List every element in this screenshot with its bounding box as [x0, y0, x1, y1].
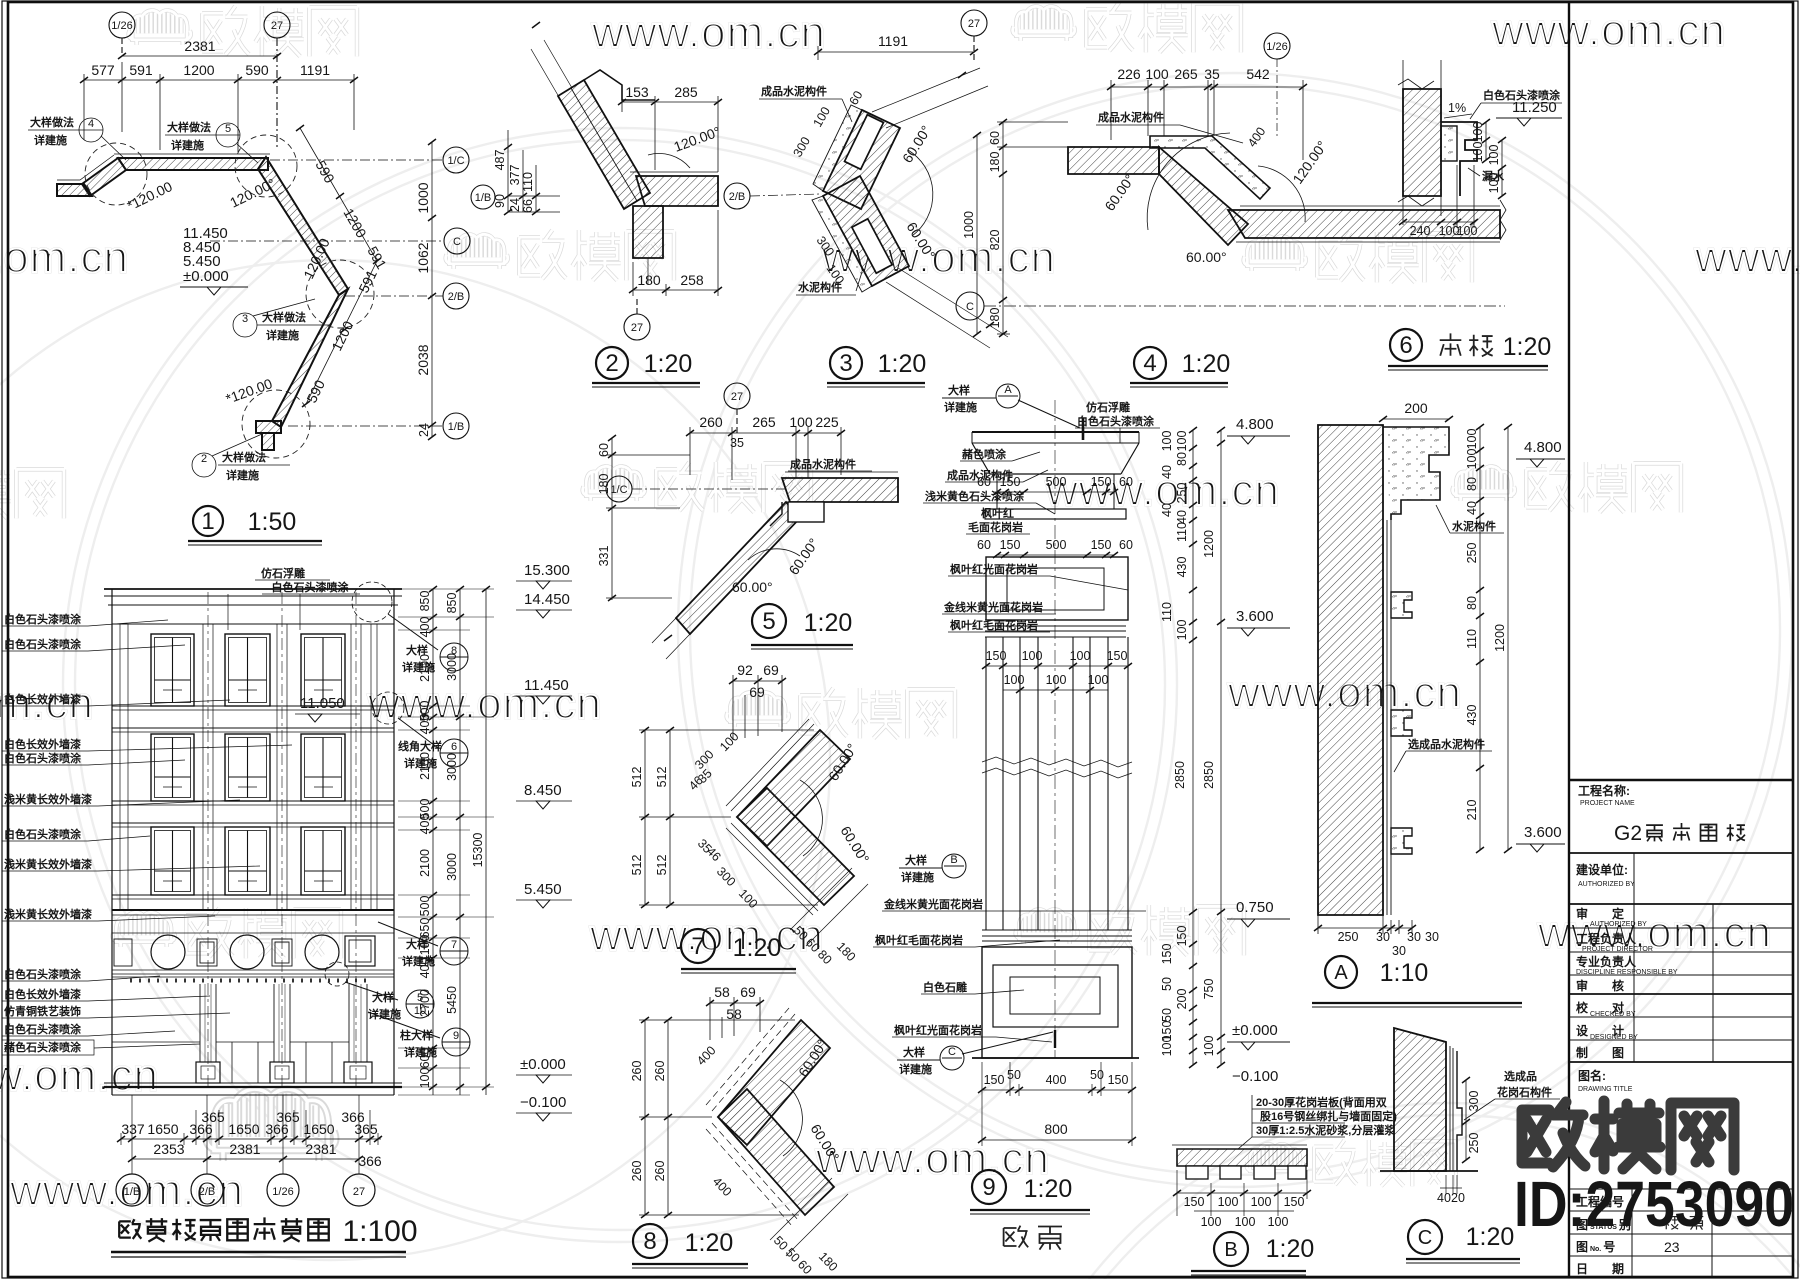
top dims: [733, 675, 782, 740]
svg-text:11.450: 11.450: [524, 677, 569, 694]
svg-text:60.00°: 60.00°: [1186, 249, 1227, 265]
top-right horizontal band: [782, 478, 898, 502]
svg-text:B: B: [1224, 1239, 1237, 1261]
svg-text:100: 100: [1022, 649, 1043, 663]
svg-text:1200: 1200: [1493, 624, 1507, 652]
wall arm diagonal: [558, 80, 650, 209]
svg-text:3000: 3000: [445, 753, 459, 781]
svg-text:40: 40: [1437, 1191, 1451, 1205]
svg-text:2850: 2850: [1202, 761, 1216, 789]
svg-text:5: 5: [762, 608, 775, 635]
pedestal: [982, 947, 1132, 1058]
svg-text:白色石头漆喷涂: 白色石头漆喷涂: [272, 580, 350, 594]
left chains: [639, 730, 818, 905]
label B: [1214, 1232, 1248, 1266]
svg-text:www.om.cn: www.om.cn: [591, 8, 826, 57]
dim 153 285: [622, 96, 718, 172]
svg-text:www.om.cn: www.om.cn: [1491, 6, 1726, 55]
svg-text:600: 600: [418, 1048, 432, 1069]
svg-text:仿青铜铁艺装饰: 仿青铜铁艺装饰: [4, 1004, 81, 1018]
svg-text:265: 265: [1174, 66, 1198, 82]
chevron bands: [718, 1020, 830, 1145]
grid circles: [116, 1174, 375, 1206]
svg-text:C: C: [948, 1046, 956, 1058]
label circle 1 1:50: [193, 506, 223, 536]
svg-text:180: 180: [597, 474, 611, 495]
coping batten: [1150, 136, 1270, 199]
svg-text:512: 512: [630, 855, 644, 876]
bottom diagonal dims: [770, 1178, 848, 1256]
wall left leg: [82, 158, 126, 196]
top dims 226 100 265 35 542: [1111, 80, 1303, 160]
svg-text:150: 150: [1107, 649, 1128, 663]
svg-text:1/C: 1/C: [447, 155, 464, 167]
svg-text:800: 800: [1044, 1121, 1068, 1137]
batten rects: [845, 115, 884, 170]
grid circle 27: [264, 12, 290, 150]
svg-text:柱大样: 柱大样: [400, 1028, 433, 1042]
svg-text:50: 50: [1160, 977, 1174, 991]
dims: [1177, 1170, 1307, 1216]
label 4: [1134, 347, 1166, 379]
svg-text:225: 225: [815, 414, 839, 430]
svg-text:60: 60: [988, 131, 1002, 145]
svg-text:白色石头漆喷涂: 白色石头漆喷涂: [1077, 414, 1155, 428]
svg-text:±0.000: ±0.000: [1232, 1022, 1278, 1039]
bottom dims 180 258: [633, 210, 718, 296]
svg-text:366: 366: [265, 1121, 289, 1137]
svg-text:金线米黄光面花岗岩: 金线米黄光面花岗岩: [943, 600, 1043, 614]
svg-text:69: 69: [740, 984, 756, 1000]
svg-text:100: 100: [1202, 1036, 1216, 1057]
svg-text:CHECKED BY: CHECKED BY: [1590, 1011, 1636, 1018]
svg-text:50: 50: [1160, 1008, 1174, 1022]
grid 27: [724, 383, 750, 433]
svg-text:100: 100: [418, 1068, 432, 1089]
svg-text:50: 50: [1007, 1068, 1021, 1082]
svg-text:512: 512: [630, 767, 644, 788]
svg-text:浅米黄长效外墙漆: 浅米黄长效外墙漆: [4, 907, 92, 921]
svg-text:1/26: 1/26: [272, 1186, 293, 1198]
wall top band: [57, 157, 348, 450]
svg-text:100: 100: [1004, 673, 1025, 687]
svg-text:www.om.cn: www.om.cn: [815, 1134, 1050, 1183]
svg-text:100: 100: [1070, 649, 1091, 663]
left labels: [2, 612, 292, 1055]
outer thin layers: [726, 719, 818, 915]
axis extension: [531, 40, 648, 285]
svg-text:2100: 2100: [418, 654, 432, 682]
svg-text:AUTHORIZED BY: AUTHORIZED BY: [1578, 881, 1635, 888]
svg-text:80: 80: [1175, 452, 1189, 466]
label 3: [830, 347, 862, 379]
svg-text:35: 35: [730, 436, 744, 450]
svg-text:1:20: 1:20: [1266, 1235, 1315, 1263]
svg-text:15300: 15300: [471, 833, 485, 868]
svg-text:50: 50: [1090, 1068, 1104, 1082]
svg-text:150: 150: [1175, 926, 1189, 947]
svg-text:成品水泥构件: 成品水泥构件: [947, 468, 1013, 482]
angle: [780, 1080, 802, 1156]
svg-text:1/26: 1/26: [1266, 41, 1287, 53]
svg-text:3.600: 3.600: [1236, 608, 1274, 625]
svg-text:100: 100: [1471, 122, 1485, 143]
svg-text:2/B: 2/B: [729, 191, 746, 203]
svg-text:3.600: 3.600: [1524, 824, 1562, 841]
svg-text:60.00°: 60.00°: [732, 579, 773, 595]
svg-text:4.800: 4.800: [1524, 439, 1562, 456]
svg-text:1:20: 1:20: [685, 1229, 734, 1257]
svg-text:2381: 2381: [229, 1141, 260, 1157]
svg-text:DESIGNED BY: DESIGNED BY: [1590, 1034, 1638, 1041]
svg-text:9: 9: [982, 1174, 995, 1201]
svg-text:1200: 1200: [1202, 530, 1216, 558]
svg-text:成品水泥构件: 成品水泥构件: [790, 457, 856, 471]
svg-text:详建施: 详建施: [899, 1062, 932, 1076]
chevron bands: [737, 730, 850, 846]
svg-text:300: 300: [1467, 1091, 1481, 1112]
svg-text:2100: 2100: [418, 752, 432, 780]
cap molding: [1383, 427, 1449, 520]
svg-text:1/B: 1/B: [448, 421, 465, 433]
svg-text:建设单位:: 建设单位:: [1575, 862, 1628, 877]
svg-text:2700: 2700: [418, 989, 432, 1017]
svg-text:制 图: 制 图: [1576, 1045, 1624, 1060]
dim row 577 591 1200 590 1191: [84, 62, 354, 152]
svg-text:2850: 2850: [1173, 761, 1187, 789]
svg-text:90: 90: [493, 194, 507, 208]
svg-text:枫叶红光面花岗岩: 枫叶红光面花岗岩: [950, 562, 1038, 576]
left chains: [977, 122, 1068, 334]
svg-text:100: 100: [1088, 673, 1109, 687]
svg-text:2/B: 2/B: [199, 1186, 216, 1198]
svg-text:1:20: 1:20: [1503, 333, 1552, 361]
svg-text:24: 24: [508, 198, 522, 212]
svg-text:赭色喷涂: 赭色喷涂: [962, 447, 1007, 461]
svg-text:线角大样: 线角大样: [398, 739, 442, 753]
title: [119, 1217, 329, 1241]
svg-text:226: 226: [1117, 66, 1141, 82]
svg-text:100: 100: [1487, 145, 1501, 166]
svg-text:www.om.cn: www.om.cn: [0, 1051, 159, 1100]
svg-text:20-30厚花岗岩板(背面用双: 20-30厚花岗岩板(背面用双: [1256, 1095, 1387, 1109]
svg-text:69: 69: [749, 684, 765, 700]
svg-text:3000: 3000: [445, 653, 459, 681]
svg-text:100: 100: [1175, 431, 1189, 452]
svg-text:大样: 大样: [903, 1045, 925, 1059]
svg-text:大样: 大样: [372, 990, 394, 1004]
svg-text:1/B: 1/B: [475, 192, 492, 204]
svg-text:100: 100: [1160, 1036, 1174, 1057]
svg-text:花岗石构件: 花岗石构件: [1497, 1085, 1552, 1099]
end extension: [652, 618, 690, 659]
svg-text:331: 331: [597, 546, 611, 567]
svg-text:590: 590: [245, 62, 269, 78]
svg-text:69: 69: [763, 662, 779, 678]
thin band: [985, 509, 1126, 519]
wall bottom stub: [256, 421, 281, 433]
dashed layers: [706, 1008, 799, 1227]
svg-text:1%: 1%: [1448, 101, 1466, 115]
svg-text:大样做法: 大样做法: [30, 115, 74, 129]
label 7: [681, 929, 715, 963]
svg-text:80: 80: [1465, 596, 1479, 610]
svg-text:365: 365: [354, 1121, 378, 1137]
svg-text:400: 400: [418, 714, 432, 735]
wall right horizontal: [1228, 210, 1500, 238]
svg-text:20: 20: [1451, 1191, 1465, 1205]
svg-text:500: 500: [1046, 538, 1067, 552]
svg-text:4: 4: [88, 118, 94, 130]
svg-text:1/B: 1/B: [124, 1186, 141, 1198]
ground: [972, 1057, 1139, 1059]
svg-text:PROJECT DIRECTOR: PROJECT DIRECTOR: [1582, 946, 1653, 953]
right dims: [1486, 122, 1502, 196]
svg-text:±0.000: ±0.000: [183, 268, 229, 285]
svg-text:200: 200: [1404, 400, 1428, 416]
angle: [800, 780, 822, 856]
svg-text:430: 430: [1465, 705, 1479, 726]
svg-text:1650: 1650: [303, 1121, 334, 1137]
svg-text:审 核: 审 核: [1576, 978, 1624, 993]
svg-text:5.450: 5.450: [524, 881, 562, 898]
svg-text:8: 8: [643, 1228, 656, 1255]
svg-text:选成品水泥构件: 选成品水泥构件: [1408, 737, 1485, 751]
svg-text:100: 100: [1046, 673, 1067, 687]
svg-text:PROJECT NAME: PROJECT NAME: [1580, 800, 1635, 807]
svg-text:265: 265: [752, 414, 776, 430]
grid circle 27 below: [624, 296, 650, 340]
dim 2381: [122, 55, 277, 57]
axis extensions: [872, 68, 1008, 348]
svg-text:详建施: 详建施: [171, 138, 204, 152]
svg-text:1650: 1650: [147, 1121, 178, 1137]
svg-text:DRAWING TITLE: DRAWING TITLE: [1578, 1086, 1633, 1093]
svg-text:150: 150: [984, 1073, 1005, 1087]
svg-text:100: 100: [1201, 1215, 1222, 1229]
svg-text:−0.100: −0.100: [520, 1094, 566, 1111]
svg-text:260: 260: [653, 1161, 667, 1182]
windows row3: [151, 827, 345, 895]
svg-text:6: 6: [1399, 332, 1412, 359]
svg-text:40: 40: [1160, 503, 1174, 517]
svg-text:400: 400: [418, 814, 432, 835]
svg-text:1:20: 1:20: [1466, 1223, 1515, 1251]
svg-text:285: 285: [674, 84, 698, 100]
svg-text:512: 512: [655, 767, 669, 788]
svg-text:14.450: 14.450: [524, 591, 570, 608]
bottom dims 240 100 100: [1403, 165, 1474, 228]
svg-text:30: 30: [1425, 930, 1439, 944]
svg-text:2381: 2381: [184, 38, 215, 54]
svg-text:白色石雕: 白色石雕: [923, 980, 967, 994]
svg-text:35: 35: [1204, 66, 1220, 82]
wall right upper leg: [258, 157, 348, 295]
svg-text:选成品: 选成品: [1504, 1069, 1537, 1083]
wall: [1403, 89, 1441, 196]
svg-text:1100: 1100: [418, 935, 432, 962]
svg-text:5: 5: [225, 123, 231, 135]
svg-text:赭色石头漆喷涂: 赭色石头漆喷涂: [4, 1040, 82, 1054]
svg-text:150: 150: [1108, 1073, 1129, 1087]
svg-text:1: 1: [201, 508, 214, 535]
svg-text:专业负责人: 专业负责人: [1576, 954, 1637, 969]
svg-text:白色石头漆喷涂: 白色石头漆喷涂: [4, 751, 82, 765]
svg-text:150: 150: [1184, 1195, 1205, 1209]
svg-text:−0.100: −0.100: [1232, 1068, 1278, 1085]
grid 2/B: [724, 183, 820, 209]
dashed callout circles: [85, 135, 374, 458]
svg-text:DISCIPLINE RESPONSIBLE BY: DISCIPLINE RESPONSIBLE BY: [1576, 969, 1678, 976]
svg-text:150: 150: [1000, 538, 1021, 552]
building outline: [104, 589, 402, 1095]
top dims: [710, 997, 760, 1040]
svg-text:2: 2: [605, 350, 618, 377]
svg-text:92: 92: [737, 662, 753, 678]
svg-text:100: 100: [1160, 431, 1174, 452]
svg-text:577: 577: [91, 62, 115, 78]
svg-text:浅米黄长效外墙漆: 浅米黄长效外墙漆: [4, 792, 92, 806]
band 2: [985, 620, 1126, 637]
wall lower leg: [272, 289, 348, 427]
svg-text:B: B: [950, 854, 957, 866]
svg-text:毛面花岗岩: 毛面花岗岩: [968, 520, 1023, 534]
svg-text:66: 66: [521, 199, 535, 213]
svg-text:100: 100: [1251, 1195, 1272, 1209]
svg-text:2/B: 2/B: [448, 291, 465, 303]
svg-text:2: 2: [201, 453, 207, 465]
stipple band + molding: [1441, 126, 1457, 161]
svg-text:430: 430: [1175, 557, 1189, 578]
svg-text:153: 153: [625, 84, 649, 100]
svg-text:1:20: 1:20: [804, 609, 853, 637]
svg-text:60: 60: [1119, 475, 1133, 489]
svg-text:150: 150: [1284, 1195, 1305, 1209]
svg-text:1/C: 1/C: [610, 484, 627, 496]
svg-text:40: 40: [1160, 465, 1174, 479]
svg-text:180: 180: [988, 308, 1002, 329]
wall: [1394, 1028, 1446, 1171]
svg-text:浅米黄长效外墙漆: 浅米黄长效外墙漆: [4, 857, 92, 871]
svg-text:820: 820: [988, 230, 1002, 251]
svg-text:1000: 1000: [415, 182, 431, 213]
pilaster strips: [120, 624, 377, 910]
title block: [1569, 780, 1793, 1277]
svg-text:2038: 2038: [415, 344, 431, 375]
svg-text:A: A: [1334, 962, 1348, 984]
chevron upper band: [823, 110, 900, 209]
left chains: [639, 1020, 799, 1215]
svg-text:150: 150: [1160, 944, 1174, 965]
svg-text:100: 100: [789, 414, 813, 430]
svg-text:337: 337: [121, 1121, 145, 1137]
svg-text:枫叶红: 枫叶红: [981, 506, 1014, 520]
svg-text:2353: 2353: [153, 1141, 184, 1157]
svg-text:9: 9: [453, 1030, 459, 1042]
svg-text:C: C: [453, 236, 461, 248]
svg-text:591: 591: [129, 62, 153, 78]
svg-text:1:20: 1:20: [644, 350, 693, 378]
svg-text:仿石浮雕: 仿石浮雕: [261, 566, 305, 580]
svg-text:30厚1:2.5水泥砂浆,分层灌浆: 30厚1:2.5水泥砂浆,分层灌浆: [1256, 1123, 1396, 1137]
svg-text:100: 100: [1145, 66, 1169, 82]
svg-text:27: 27: [353, 1186, 365, 1198]
svg-text:8.450: 8.450: [524, 782, 562, 799]
wall left horizontal: [1068, 147, 1159, 174]
grid 1/26: [1264, 33, 1290, 136]
svg-text:工程负责人: 工程负责人: [1576, 931, 1637, 946]
svg-text:±0.000: ±0.000: [520, 1056, 566, 1073]
svg-text:487: 487: [493, 150, 507, 171]
top dim 200: [1383, 418, 1449, 420]
windows row2: [151, 734, 345, 801]
bottom dims: [982, 1062, 1132, 1146]
svg-text:260: 260: [699, 414, 723, 430]
svg-text:100: 100: [1471, 142, 1485, 163]
svg-text:详建施: 详建施: [901, 870, 934, 884]
svg-text:366: 366: [189, 1121, 213, 1137]
svg-text:500: 500: [1046, 475, 1067, 489]
center axis: [1054, 400, 1056, 1058]
right chains: [1480, 427, 1508, 850]
svg-text:www.om.cn: www.om.cn: [1694, 233, 1800, 282]
svg-text:60: 60: [1119, 538, 1133, 552]
svg-text:512: 512: [655, 855, 669, 876]
svg-text:60: 60: [597, 443, 611, 457]
svg-text:11.250: 11.250: [1512, 99, 1557, 116]
svg-text:金线米黄光面花岗岩: 金线米黄光面花岗岩: [883, 897, 983, 911]
svg-text:图名:: 图名:: [1578, 1068, 1606, 1083]
svg-text:3: 3: [242, 313, 248, 325]
svg-text:850: 850: [418, 591, 432, 612]
svg-text:23: 23: [1664, 1239, 1680, 1255]
svg-text:27: 27: [731, 391, 743, 403]
svg-text:浅米黄色石头漆喷涂: 浅米黄色石头漆喷涂: [925, 489, 1025, 503]
svg-text:AUTHORIZED BY: AUTHORIZED BY: [1590, 921, 1647, 928]
svg-text:24: 24: [417, 423, 431, 437]
bottom diagonal dims: [790, 868, 868, 946]
svg-text:ID:2753090: ID:2753090: [1514, 1168, 1794, 1240]
right extension lines: [398, 589, 494, 1095]
svg-text:30: 30: [1376, 930, 1390, 944]
wall horizontal band: [636, 176, 718, 206]
svg-text:白色石头漆喷涂: 白色石头漆喷涂: [4, 1022, 82, 1036]
wall diagonal band: [1159, 147, 1248, 245]
wall left horizontal: [57, 184, 92, 196]
svg-text:180: 180: [988, 152, 1002, 173]
svg-text:750: 750: [1202, 979, 1216, 1000]
upper panel: [986, 557, 1128, 620]
svg-text:2381: 2381: [305, 1141, 336, 1157]
svg-text:1:20: 1:20: [733, 934, 782, 962]
chains: [433, 589, 486, 1095]
face lines + bumps: [1387, 520, 1391, 915]
svg-text:工程名称:: 工程名称:: [1578, 783, 1630, 798]
svg-text:4: 4: [1143, 350, 1156, 377]
angle arcs: [1147, 133, 1230, 230]
grid circle 27: [961, 10, 987, 62]
svg-text:水泥构件: 水泥构件: [1452, 519, 1496, 533]
svg-text:日 期: 日 期: [1576, 1261, 1624, 1276]
svg-text:1191: 1191: [878, 33, 908, 49]
dims: [1465, 1080, 1467, 1160]
svg-text:110: 110: [1465, 629, 1479, 649]
windows row1: [151, 634, 345, 706]
svg-text:7: 7: [691, 933, 704, 960]
base band: [982, 930, 1132, 947]
svg-text:C: C: [1418, 1227, 1432, 1249]
svg-text:3: 3: [839, 350, 852, 377]
